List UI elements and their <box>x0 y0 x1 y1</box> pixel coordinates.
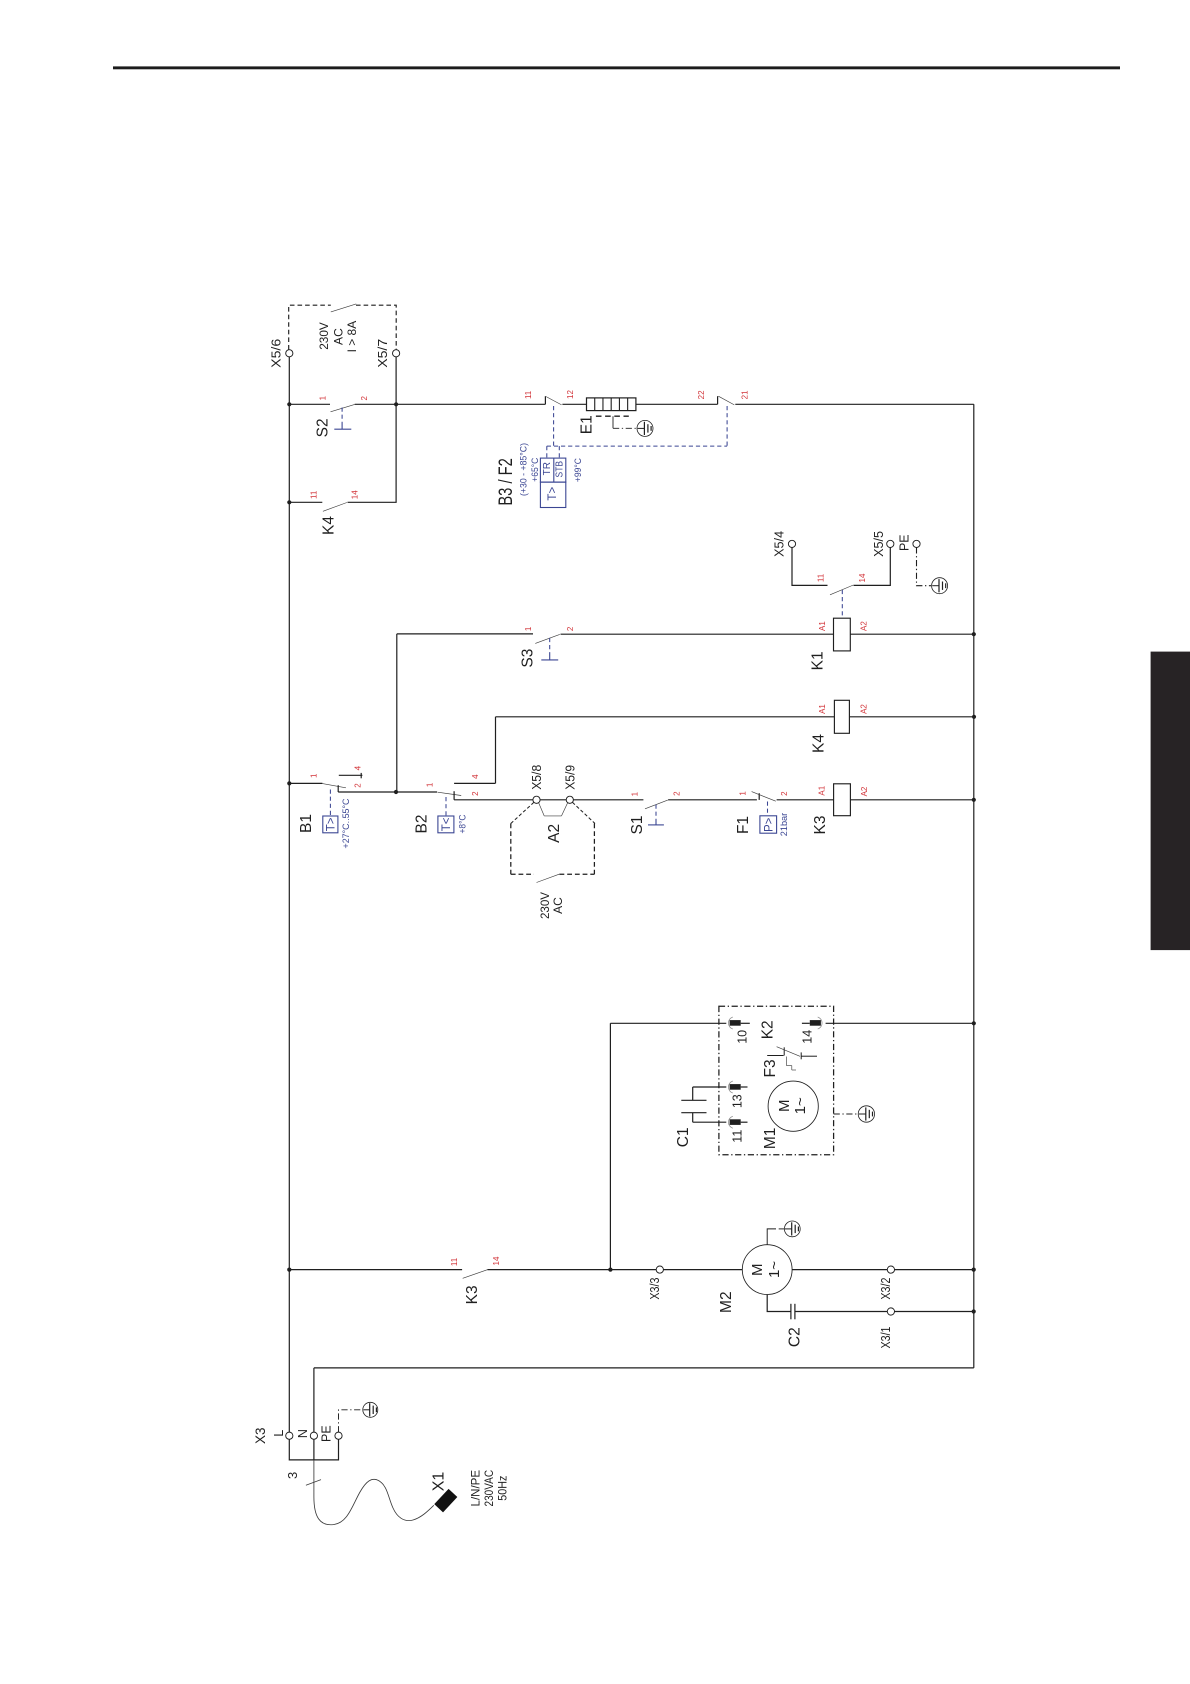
svg-text:T<: T< <box>441 817 453 831</box>
svg-text:S2: S2 <box>314 418 331 437</box>
svg-text:2: 2 <box>673 791 682 796</box>
svg-text:22: 22 <box>697 390 706 399</box>
svg-text:STB: STB <box>554 461 565 478</box>
svg-text:AC: AC <box>332 328 346 345</box>
svg-text:A2: A2 <box>546 824 563 843</box>
svg-text:B3 / F2: B3 / F2 <box>496 458 517 506</box>
svg-text:F1: F1 <box>735 816 752 834</box>
svg-text:E1: E1 <box>578 415 595 434</box>
svg-text:3: 3 <box>285 1472 300 1479</box>
svg-text:(+30 - +85°C): (+30 - +85°C) <box>519 443 530 496</box>
svg-text:M: M <box>749 1263 766 1276</box>
svg-text:11: 11 <box>817 573 826 582</box>
svg-text:2: 2 <box>471 791 480 796</box>
svg-text:C2: C2 <box>787 1327 804 1347</box>
svg-text:P>: P> <box>763 817 775 832</box>
svg-text:+8°C: +8°C <box>457 814 468 833</box>
svg-text:A1: A1 <box>818 785 827 795</box>
svg-text:X3/2: X3/2 <box>879 1278 893 1300</box>
svg-text:1: 1 <box>425 782 434 787</box>
svg-text:1~: 1~ <box>766 1261 783 1278</box>
svg-text:14: 14 <box>492 1256 501 1265</box>
svg-text:12: 12 <box>566 390 575 399</box>
svg-text:2: 2 <box>566 626 575 631</box>
svg-text:4: 4 <box>471 774 480 779</box>
svg-text:TR: TR <box>542 462 553 475</box>
svg-text:T>: T> <box>547 487 559 501</box>
svg-text:L: L <box>272 1430 286 1437</box>
svg-text:1: 1 <box>318 395 327 400</box>
svg-text:X5/8: X5/8 <box>530 765 544 790</box>
svg-text:+27°C..55°C: +27°C..55°C <box>341 798 352 848</box>
svg-text:A2: A2 <box>860 786 869 796</box>
svg-text:M: M <box>776 1100 793 1113</box>
svg-text:1: 1 <box>738 791 747 796</box>
svg-text:1: 1 <box>309 773 318 778</box>
svg-text:C1: C1 <box>675 1127 692 1147</box>
svg-text:10: 10 <box>736 1030 750 1044</box>
svg-text:K1: K1 <box>810 651 827 670</box>
svg-text:S3: S3 <box>520 649 537 668</box>
svg-text:11: 11 <box>450 1257 459 1266</box>
svg-text:K3: K3 <box>464 1285 481 1304</box>
svg-text:B1: B1 <box>298 814 315 833</box>
svg-text:11: 11 <box>524 390 533 399</box>
svg-text:+65°C: +65°C <box>530 458 541 482</box>
svg-text:M1: M1 <box>762 1128 779 1150</box>
svg-text:1: 1 <box>630 791 639 796</box>
svg-text:A2: A2 <box>859 621 868 631</box>
svg-text:14: 14 <box>858 573 867 582</box>
svg-text:L/N/PE: L/N/PE <box>469 1470 483 1507</box>
svg-text:+99°C: +99°C <box>573 458 584 482</box>
svg-text:1~: 1~ <box>792 1097 809 1114</box>
svg-text:50Hz: 50Hz <box>496 1476 510 1501</box>
svg-text:B2: B2 <box>413 815 430 834</box>
svg-text:T>: T> <box>326 817 338 831</box>
svg-text:PE: PE <box>320 1425 334 1442</box>
svg-text:N: N <box>296 1429 310 1438</box>
svg-text:F3: F3 <box>762 1059 779 1077</box>
svg-text:X5/7: X5/7 <box>376 339 390 368</box>
svg-text:21bar: 21bar <box>779 813 790 837</box>
svg-text:X3/1: X3/1 <box>879 1326 893 1348</box>
svg-text:X5/9: X5/9 <box>563 765 577 790</box>
svg-text:M2: M2 <box>718 1291 735 1313</box>
svg-text:230VAC: 230VAC <box>482 1470 496 1507</box>
svg-text:K4: K4 <box>321 516 338 535</box>
svg-text:AC: AC <box>551 897 565 914</box>
svg-text:X5/4: X5/4 <box>772 531 786 557</box>
svg-text:14: 14 <box>800 1030 814 1044</box>
svg-text:X3: X3 <box>253 1427 268 1444</box>
svg-text:13: 13 <box>730 1094 744 1108</box>
svg-text:11: 11 <box>730 1130 744 1143</box>
svg-text:4: 4 <box>353 765 362 770</box>
svg-text:11: 11 <box>309 490 318 499</box>
svg-text:1: 1 <box>524 626 533 631</box>
svg-text:K4: K4 <box>810 734 827 753</box>
svg-text:PE: PE <box>897 534 911 551</box>
svg-text:X5/6: X5/6 <box>270 339 284 368</box>
svg-text:X1: X1 <box>430 1472 447 1492</box>
svg-text:A1: A1 <box>818 704 827 714</box>
svg-text:X5/5: X5/5 <box>872 531 886 557</box>
svg-text:21: 21 <box>741 390 750 399</box>
svg-text:K2: K2 <box>759 1020 776 1039</box>
svg-text:230V: 230V <box>317 322 331 350</box>
svg-text:X3/3: X3/3 <box>648 1278 662 1300</box>
svg-text:2: 2 <box>780 791 789 796</box>
svg-text:I > 8A: I > 8A <box>345 321 359 353</box>
svg-text:A1: A1 <box>818 621 827 631</box>
svg-text:K3: K3 <box>812 816 829 835</box>
svg-text:2: 2 <box>360 395 369 400</box>
svg-text:S1: S1 <box>629 816 646 835</box>
svg-text:14: 14 <box>351 490 360 499</box>
svg-text:A2: A2 <box>859 704 868 714</box>
svg-text:2: 2 <box>353 783 362 788</box>
svg-text:230V: 230V <box>538 892 552 919</box>
